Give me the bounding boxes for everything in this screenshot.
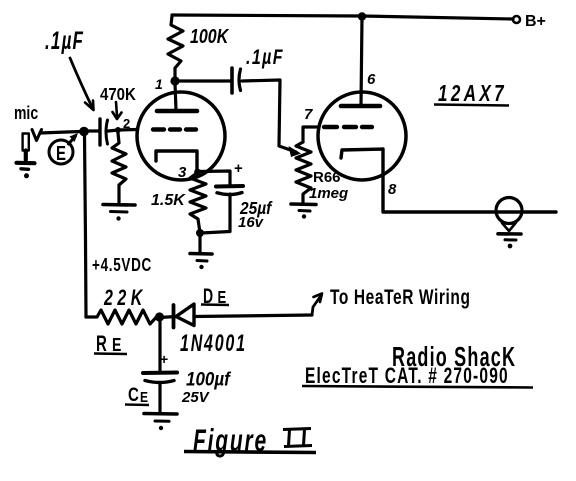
svg-text:1.5K: 1.5K: [151, 192, 186, 209]
svg-text:12AX7: 12AX7: [438, 82, 507, 107]
svg-text:7: 7: [304, 106, 313, 123]
svg-text:+: +: [160, 351, 168, 367]
svg-text:To HeaTeR Wiring: To HeaTeR Wiring: [330, 284, 471, 308]
svg-text:25V: 25V: [181, 389, 211, 406]
svg-text:1meg: 1meg: [309, 185, 348, 202]
svg-text:+4.5VDC: +4.5VDC: [92, 255, 152, 275]
svg-text:B+: B+: [525, 13, 546, 30]
svg-text:C: C: [128, 383, 139, 405]
svg-text:1: 1: [155, 76, 163, 92]
svg-text:.1µF: .1µF: [45, 28, 84, 55]
svg-text:.1µF: .1µF: [246, 45, 284, 69]
svg-text:E: E: [56, 142, 66, 165]
svg-text:mic: mic: [14, 103, 38, 123]
svg-text:1N4001: 1N4001: [180, 331, 247, 357]
svg-text:100K: 100K: [190, 25, 230, 47]
svg-text:E: E: [112, 335, 121, 355]
svg-text:R66: R66: [313, 169, 341, 186]
svg-text:22K: 22K: [103, 285, 147, 310]
svg-text:8: 8: [388, 181, 397, 198]
svg-text:R: R: [96, 331, 107, 355]
svg-text:470K: 470K: [100, 84, 136, 105]
svg-text:100µf: 100µf: [186, 367, 232, 389]
svg-text:3: 3: [178, 164, 187, 181]
svg-text:16v: 16v: [238, 214, 265, 231]
svg-text:6: 6: [367, 71, 376, 88]
svg-text:+: +: [234, 160, 243, 177]
svg-text:E: E: [140, 389, 148, 405]
svg-text:2: 2: [123, 116, 130, 131]
